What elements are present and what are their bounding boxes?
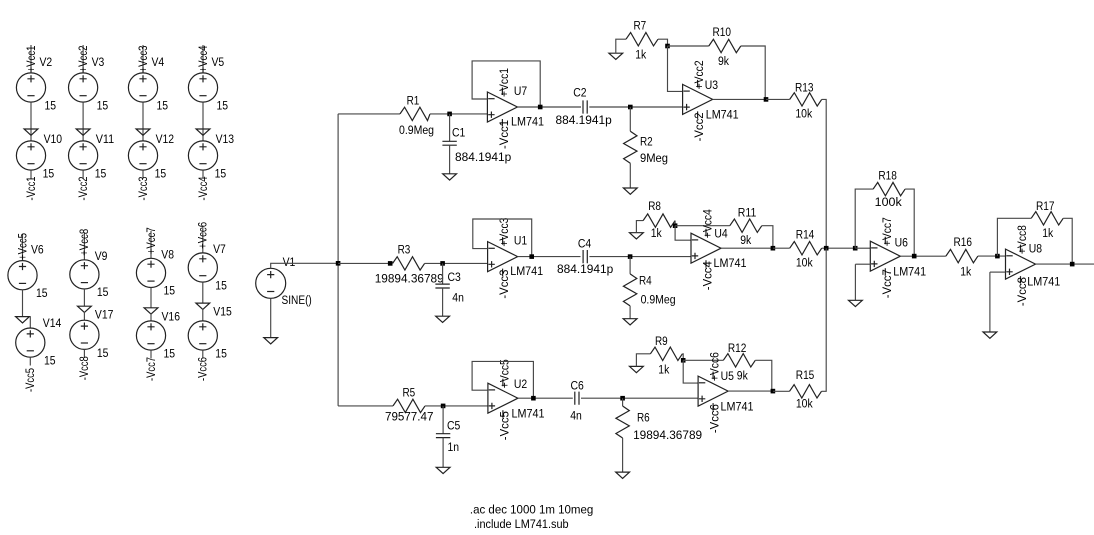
wire	[622, 398, 624, 406]
svg-text:V14: V14	[43, 316, 62, 330]
capacitor C6	[575, 392, 579, 405]
resistor R12	[723, 354, 755, 367]
junction	[771, 246, 776, 251]
voltage source V15	[188, 321, 217, 350]
svg-text:+Vcc6: +Vcc6	[708, 352, 722, 381]
svg-text:V12: V12	[156, 132, 175, 146]
svg-text:C4: C4	[578, 236, 591, 250]
svg-text:C1: C1	[452, 126, 465, 140]
svg-text:15: 15	[44, 354, 56, 368]
resistor R18	[873, 182, 905, 195]
svg-text:V9: V9	[95, 249, 108, 263]
svg-text:LM741: LM741	[714, 256, 747, 270]
wire	[755, 360, 772, 391]
wire	[442, 438, 444, 468]
svg-text:10k: 10k	[796, 255, 813, 269]
wire	[855, 263, 870, 265]
wire	[905, 189, 914, 256]
voltage source V10	[16, 141, 45, 170]
svg-text:R7: R7	[634, 19, 647, 33]
ground	[443, 174, 457, 180]
wire	[518, 397, 573, 399]
wire	[82, 102, 84, 141]
ground	[983, 332, 997, 338]
svg-text:+Vcc1: +Vcc1	[24, 46, 38, 73]
wire	[425, 405, 488, 407]
svg-text:+Vcc4: +Vcc4	[196, 45, 210, 72]
svg-text:+Vcc8: +Vcc8	[77, 228, 91, 255]
wire	[442, 406, 444, 434]
junction	[529, 254, 534, 259]
resistor R6	[616, 406, 629, 438]
junction	[681, 358, 686, 363]
ground	[264, 338, 278, 344]
wire	[855, 247, 870, 249]
svg-text:15: 15	[95, 167, 107, 181]
svg-text:-Vcc6: -Vcc6	[196, 357, 210, 381]
svg-text:15: 15	[157, 99, 169, 113]
svg-text:+Vcc7: +Vcc7	[880, 217, 894, 246]
svg-text:R14: R14	[796, 228, 815, 242]
svg-text:R11: R11	[738, 206, 757, 220]
junction	[673, 223, 678, 228]
svg-text:R1: R1	[407, 94, 420, 108]
wire	[22, 234, 24, 261]
svg-text:0.9Meg: 0.9Meg	[399, 123, 434, 137]
svg-text:-Vcc2: -Vcc2	[76, 177, 90, 201]
svg-text:10k: 10k	[796, 397, 813, 411]
voltage source V5	[188, 73, 217, 102]
svg-text:15: 15	[97, 346, 109, 360]
wire	[822, 247, 856, 249]
junction	[531, 396, 536, 401]
wire	[517, 106, 581, 108]
wire	[142, 45, 144, 73]
ground	[16, 317, 30, 323]
wire	[683, 359, 723, 361]
svg-text:LM741: LM741	[893, 264, 926, 278]
wire	[629, 257, 631, 274]
resistor R7	[626, 33, 658, 46]
wire	[271, 263, 338, 268]
wire	[29, 357, 31, 365]
svg-text:U6: U6	[895, 236, 908, 250]
wire	[449, 145, 451, 174]
wire	[442, 288, 444, 316]
svg-text:LM741: LM741	[512, 406, 545, 420]
svg-text:SINE(): SINE()	[282, 293, 312, 307]
op-amp U5	[698, 376, 728, 406]
svg-text:V3: V3	[92, 55, 105, 69]
svg-text:V7: V7	[213, 242, 226, 256]
wire	[629, 107, 631, 131]
svg-text:V16: V16	[162, 309, 181, 323]
voltage source V7	[188, 253, 217, 282]
svg-text:LM741: LM741	[511, 114, 544, 128]
svg-text:4n: 4n	[452, 291, 464, 305]
wire U7 feedback	[472, 61, 540, 107]
op-amp U6	[870, 241, 900, 271]
resistor R5	[393, 399, 425, 412]
junction	[995, 254, 1000, 259]
wire	[1063, 218, 1072, 264]
wire	[589, 256, 691, 258]
svg-text:15: 15	[36, 286, 48, 300]
svg-text:.ac dec 1000 1m 10meg: .ac dec 1000 1m 10meg	[470, 502, 593, 516]
wire	[773, 247, 790, 249]
svg-text:+Vcc3: +Vcc3	[136, 45, 150, 72]
resistor R9	[650, 347, 682, 360]
wire	[855, 189, 873, 248]
wire	[150, 231, 152, 259]
svg-text:LM741: LM741	[1027, 275, 1060, 289]
wire	[713, 98, 766, 100]
wire	[728, 390, 773, 392]
wire	[202, 45, 204, 73]
junction	[336, 261, 341, 266]
resistor R1	[400, 107, 430, 120]
svg-text:V17: V17	[95, 308, 114, 322]
wire right bus upper	[822, 99, 827, 248]
wire	[22, 290, 24, 317]
wire	[622, 438, 624, 472]
wire	[202, 102, 204, 141]
svg-text:U7: U7	[514, 84, 527, 98]
wire	[82, 45, 84, 73]
voltage source V8	[136, 258, 165, 287]
svg-text:U2: U2	[514, 377, 527, 391]
svg-text:+Vcc7: +Vcc7	[144, 227, 158, 254]
svg-text:U1: U1	[514, 234, 527, 248]
junction	[628, 254, 633, 259]
resistor R11	[730, 219, 762, 232]
wire	[83, 289, 85, 306]
wire	[30, 170, 32, 178]
wire	[773, 390, 790, 392]
capacitor C2	[583, 100, 587, 113]
svg-text:V10: V10	[44, 132, 63, 146]
junction	[824, 246, 829, 251]
svg-text:-Vcc1: -Vcc1	[24, 177, 38, 201]
op-amp U4	[691, 233, 721, 263]
resistor R2	[624, 131, 637, 163]
svg-text:R4: R4	[639, 273, 652, 287]
resistor R8	[643, 214, 675, 227]
wire	[202, 170, 204, 178]
voltage source V13	[188, 141, 217, 170]
ground	[609, 53, 623, 59]
svg-text:C2: C2	[573, 85, 586, 99]
svg-text:V6: V6	[31, 243, 44, 257]
svg-text:1k: 1k	[651, 226, 663, 240]
wire	[900, 255, 946, 257]
svg-text:R2: R2	[640, 134, 653, 148]
svg-text:R17: R17	[1036, 199, 1055, 213]
junction	[440, 261, 445, 266]
resistor R3	[393, 257, 425, 270]
svg-text:C6: C6	[571, 379, 584, 393]
svg-text:R15: R15	[796, 368, 815, 382]
svg-text:C3: C3	[448, 270, 461, 284]
svg-text:9Meg: 9Meg	[640, 151, 668, 165]
op-amp U1	[488, 242, 518, 272]
wire	[674, 221, 676, 226]
svg-text:15: 15	[43, 167, 55, 181]
svg-text:LM741: LM741	[510, 264, 543, 278]
ground	[24, 129, 38, 135]
voltage source V2	[16, 73, 45, 102]
svg-text:15: 15	[97, 99, 109, 113]
ground	[78, 306, 92, 312]
svg-text:U8: U8	[1029, 242, 1042, 256]
wire	[997, 218, 1031, 256]
svg-text:+Vcc5: +Vcc5	[498, 359, 512, 388]
junction	[441, 404, 446, 409]
wire	[30, 45, 32, 73]
resistor R4	[623, 274, 636, 306]
wire	[442, 263, 444, 284]
wire	[589, 106, 682, 108]
wire	[202, 350, 204, 358]
ground	[76, 129, 90, 135]
wire	[675, 225, 730, 227]
wire	[338, 262, 390, 264]
svg-text:U3: U3	[705, 78, 718, 92]
svg-text:+Vcc3: +Vcc3	[497, 217, 511, 246]
wire	[581, 397, 698, 399]
wire	[337, 114, 339, 406]
wire	[202, 282, 204, 303]
op-amp U8	[1006, 249, 1036, 279]
svg-text:9k: 9k	[718, 54, 730, 68]
ground	[623, 319, 637, 325]
wire	[636, 354, 650, 367]
voltage source V14	[16, 328, 45, 357]
wire	[683, 360, 698, 383]
svg-text:15: 15	[164, 284, 176, 298]
ground	[630, 366, 644, 372]
svg-text:-Vcc3: -Vcc3	[136, 176, 150, 200]
wire	[83, 312, 85, 321]
junction	[764, 97, 769, 102]
wire	[854, 264, 856, 300]
wire	[150, 313, 152, 321]
junction	[538, 105, 543, 110]
junction	[620, 396, 625, 401]
wire output	[1036, 263, 1094, 265]
svg-text:+Vcc8: +Vcc8	[1015, 225, 1029, 254]
op-amp U3	[683, 84, 713, 114]
ground	[436, 467, 450, 473]
svg-text:-Vcc5: -Vcc5	[498, 411, 512, 440]
svg-text:15: 15	[215, 278, 227, 292]
wire	[675, 226, 691, 241]
svg-text:R3: R3	[398, 242, 411, 256]
ground	[849, 300, 863, 306]
junction	[447, 112, 452, 117]
ground	[196, 129, 210, 135]
svg-text:19894.36789: 19894.36789	[633, 428, 702, 442]
resistor R13	[790, 93, 822, 106]
wire	[83, 232, 85, 260]
svg-text:-Vcc7: -Vcc7	[144, 357, 158, 381]
svg-text:-Vcc2: -Vcc2	[692, 112, 706, 141]
svg-text:V2: V2	[40, 55, 53, 69]
wire	[978, 255, 1006, 257]
svg-text:4n: 4n	[570, 408, 582, 422]
svg-text:15: 15	[164, 347, 176, 361]
voltage source V1	[256, 268, 286, 298]
svg-text:15: 15	[217, 99, 229, 113]
svg-text:U5: U5	[721, 369, 734, 383]
svg-text:V15: V15	[213, 305, 232, 319]
wire	[629, 163, 631, 188]
ground	[616, 472, 630, 478]
svg-text:R10: R10	[713, 25, 732, 39]
ground	[136, 129, 150, 135]
capacitor C5	[436, 434, 450, 438]
svg-text:V5: V5	[212, 55, 225, 69]
svg-text:1k: 1k	[658, 363, 670, 377]
voltage source V9	[70, 260, 99, 289]
wire	[29, 317, 31, 329]
svg-text:-Vcc4: -Vcc4	[701, 261, 715, 290]
svg-text:+Vcc6: +Vcc6	[196, 222, 210, 249]
wire	[430, 113, 487, 115]
svg-text:U4: U4	[714, 227, 727, 241]
wire	[83, 349, 85, 357]
wire	[338, 113, 400, 115]
svg-text:15: 15	[215, 167, 227, 181]
svg-text:V1: V1	[283, 255, 296, 269]
wire	[766, 98, 790, 100]
svg-text:R6: R6	[637, 411, 650, 425]
junction	[912, 254, 917, 259]
voltage source V16	[136, 321, 165, 350]
wire U2 feedback	[472, 361, 533, 398]
resistor R14	[790, 242, 822, 255]
junction	[771, 389, 776, 394]
svg-text:LM741: LM741	[706, 107, 739, 121]
svg-text:V11: V11	[96, 132, 115, 146]
wire right bus lower	[822, 248, 827, 391]
wire	[82, 170, 84, 178]
junction	[853, 246, 858, 251]
wire	[202, 309, 204, 321]
svg-text:R18: R18	[878, 168, 897, 182]
svg-text:R16: R16	[954, 235, 973, 249]
voltage source V6	[8, 261, 37, 290]
resistor R10	[709, 39, 741, 52]
svg-text:10k: 10k	[795, 106, 812, 120]
svg-text:R8: R8	[648, 199, 661, 213]
svg-text:-Vcc5: -Vcc5	[23, 368, 37, 392]
svg-text:R5: R5	[403, 385, 416, 399]
svg-text:79577.47: 79577.47	[385, 410, 433, 424]
svg-text:9k: 9k	[740, 233, 752, 247]
resistor R17	[1031, 212, 1063, 225]
wire	[425, 262, 488, 264]
svg-text:15: 15	[215, 347, 227, 361]
junction R3 left	[388, 261, 393, 266]
ground	[144, 308, 158, 314]
wire	[150, 350, 152, 358]
wire	[741, 46, 765, 99]
voltage source V12	[128, 141, 157, 170]
svg-text:R13: R13	[795, 80, 814, 94]
svg-text:C5: C5	[447, 419, 460, 433]
svg-text:1n: 1n	[448, 440, 460, 454]
svg-text:-Vcc8: -Vcc8	[77, 356, 91, 380]
svg-text:15: 15	[155, 167, 167, 181]
wire	[142, 170, 144, 178]
svg-text:15: 15	[97, 285, 109, 299]
wire	[989, 272, 991, 332]
svg-text:9k: 9k	[737, 369, 749, 383]
wire	[142, 102, 144, 141]
op-amp U2	[488, 383, 518, 413]
wire	[150, 288, 152, 308]
wire	[721, 247, 773, 249]
voltage source V11	[69, 141, 98, 170]
wire	[762, 226, 773, 249]
wire	[668, 46, 683, 91]
wire	[681, 354, 684, 361]
ground	[623, 188, 637, 194]
wire	[629, 306, 631, 319]
ground	[630, 233, 644, 239]
svg-text:LM741: LM741	[721, 400, 754, 414]
svg-text:+Vcc5: +Vcc5	[15, 233, 29, 260]
capacitor C4	[583, 250, 587, 263]
svg-text:100k: 100k	[875, 195, 903, 209]
ground	[196, 303, 210, 309]
wire	[449, 114, 451, 141]
svg-text:884.1941p: 884.1941p	[556, 113, 612, 127]
wire	[518, 256, 581, 258]
wire	[30, 102, 32, 141]
capacitor C3	[435, 284, 449, 288]
junction	[628, 105, 633, 110]
svg-text:V13: V13	[216, 132, 235, 146]
ground	[436, 316, 450, 322]
svg-text:+Vcc4: +Vcc4	[701, 209, 715, 238]
svg-text:+Vcc1: +Vcc1	[497, 68, 511, 97]
wire U1 feedback	[473, 219, 532, 257]
wire	[990, 271, 1006, 273]
voltage source V3	[69, 73, 98, 102]
svg-text:V4: V4	[152, 55, 165, 69]
svg-text:R12: R12	[728, 341, 747, 355]
wire	[202, 226, 204, 254]
svg-text:1k: 1k	[635, 48, 647, 62]
svg-text:0.9Meg: 0.9Meg	[641, 293, 676, 307]
junction	[1070, 262, 1075, 267]
svg-text:-Vcc3: -Vcc3	[497, 269, 511, 298]
op-amp U7	[487, 92, 517, 122]
svg-text:1k: 1k	[1042, 226, 1054, 240]
wire	[270, 298, 272, 337]
svg-text:15: 15	[45, 99, 57, 113]
capacitor C1	[442, 141, 456, 145]
svg-text:+Vcc2: +Vcc2	[76, 46, 90, 73]
svg-text:884.1941p: 884.1941p	[557, 262, 613, 276]
voltage source V4	[128, 73, 157, 102]
wire	[616, 39, 626, 53]
svg-text:V8: V8	[161, 247, 174, 261]
svg-text:-Vcc4: -Vcc4	[196, 176, 210, 200]
svg-text:.include LM741.sub: .include LM741.sub	[474, 517, 569, 531]
